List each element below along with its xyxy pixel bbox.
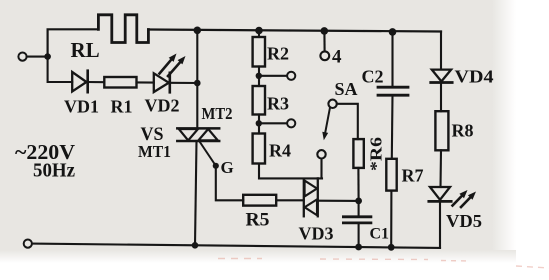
terminal input bottom [24,240,32,248]
wire terminal to junction [27,56,48,58]
resistor R4 [253,134,265,164]
svg-text:R7: R7 [402,166,424,186]
wire top bus corner to VD4 [440,32,442,70]
wire R7 to bottom bus [390,191,392,248]
svg-text:C2: C2 [362,67,384,87]
wire gate to R5 [216,166,243,201]
wire R5 to VD3 [276,199,303,201]
svg-text:C1: C1 [370,226,390,243]
wire lower-left branch [48,57,73,82]
svg-text:SA: SA [335,79,358,99]
resistor R6 [353,139,363,168]
svg-text:R1: R1 [111,97,133,117]
node R3-R4 [256,120,262,126]
diode VD4 [431,70,453,83]
triac VS [177,128,219,141]
node junction left [44,53,51,60]
wire R6 to node [357,168,359,201]
node top bus R2 [255,27,263,35]
switch SA upper contact [328,100,336,108]
terminal input top [18,53,26,61]
wire C2 to R7 [391,95,394,159]
wire stub terminal 4 [323,31,325,51]
svg-text:*R6: *R6 [367,137,386,171]
resistor R8 [435,111,448,150]
gate lead [200,142,215,165]
svg-text:VD4: VD4 [455,67,494,87]
wire stub R2 top [258,31,260,38]
wire VD4 to R8 [440,82,442,111]
svg-text:R3: R3 [267,94,289,114]
diode VD1 [72,71,88,93]
wire VD2 to main vertical [170,82,198,84]
LED VD5 arrows [453,190,477,207]
capacitor C2 [378,87,408,95]
svg-text:VD3: VD3 [299,224,334,244]
node bottom MT1 [192,242,199,249]
wire top bus [148,30,441,32]
node G [213,163,219,169]
node top bus 4 [321,27,329,35]
red print artifacts [218,259,549,269]
switch SA blade [325,108,330,135]
wire R2 to R3 [258,67,260,87]
svg-text:R4: R4 [269,141,291,161]
node bottom R7 [388,244,395,251]
svg-text:R2: R2 [267,44,289,64]
resistor R7 [386,159,396,191]
switch SA lower contact [317,150,325,158]
svg-text:50Hz: 50Hz [33,160,75,182]
wire tap 1 [259,75,287,77]
node VD3-C1-R6 [355,198,362,205]
capacitor C1 [343,217,371,223]
wire R4 bottom to VD3 top [259,164,322,179]
wire C1 to bottom bus [358,223,360,247]
svg-text:MT1: MT1 [138,142,171,161]
wire node to C1 [358,201,360,217]
wire VD5 to bottom bus [439,201,441,248]
node top bus C2 [389,28,397,36]
resistor R2 [253,37,265,67]
heater element RL [98,15,148,43]
LED VD2 arrows [160,54,186,77]
wire main vertical MT2 [196,30,198,127]
svg-text:R5: R5 [246,210,270,231]
wire SA to R6 [337,104,358,139]
wire MT1 down to bottom bus [195,141,197,245]
node VD2 right [194,80,201,87]
svg-text:VD2: VD2 [145,96,180,116]
wire bottom bus [32,244,440,248]
svg-text:RL: RL [71,38,100,62]
node top bus MT2 [194,27,202,35]
wire R3 to R4 [258,115,260,134]
svg-text:R8: R8 [452,121,474,141]
LED VD5 [429,187,451,201]
node R2-R3 [256,73,262,79]
wire C2 branch [391,32,393,87]
svg-text:MT2: MT2 [202,104,233,123]
resistor R5 [243,195,276,206]
LED VD2 [154,73,170,93]
svg-text:VD5: VD5 [446,211,482,231]
wire R1 to VD2 [137,81,154,83]
resistor R3 [253,86,265,115]
diac VD3 [304,178,318,216]
wire VD3 to node [318,200,359,202]
node bottom C1 [355,244,362,251]
wire tap 2 [259,122,287,124]
svg-text:G: G [221,158,234,177]
wire top bus with heater meander [48,29,99,56]
resistor R1 [104,77,136,88]
wire R8 to VD5 [439,150,442,187]
svg-text:4: 4 [332,46,342,67]
svg-text:VD1: VD1 [64,97,99,117]
wire VD1 to R1 [88,81,105,83]
